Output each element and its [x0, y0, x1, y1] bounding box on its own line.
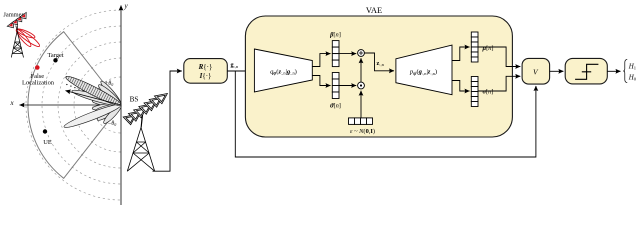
output brace — [623, 60, 627, 83]
svg-text:H0: H0 — [628, 73, 637, 81]
BS tower — [127, 114, 154, 171]
steering arrow — [66, 91, 122, 105]
petal -7 — [92, 102, 121, 111]
svg-text:σ[n]: σ[n] — [483, 89, 494, 96]
svg-text:H1: H1 — [628, 62, 637, 70]
wire g to VAE — [227, 70, 251, 72]
decoder fan-out wires — [452, 47, 470, 61]
vector sigma — [471, 77, 478, 107]
svg-text:ε ~ N(0,I): ε ~ N(0,I) — [350, 128, 375, 135]
wire mu to V — [478, 47, 520, 67]
feedback wire — [235, 71, 536, 157]
svg-text:+θ0: +θ0 — [105, 81, 114, 87]
wire BS to Re/Im block — [153, 71, 182, 171]
svg-text:Localization: Localization — [22, 80, 55, 87]
sector boundary — [28, 32, 121, 179]
target dot — [53, 58, 57, 62]
svg-text:μ[n]: μ[n] — [482, 45, 494, 52]
petal +8 — [92, 98, 122, 108]
jammer beam lobes — [15, 27, 42, 49]
svg-text:ϑ[n]: ϑ[n] — [330, 103, 341, 110]
y-axis — [120, 6, 122, 206]
vector mu — [471, 32, 478, 62]
svg-text:BS: BS — [130, 96, 139, 104]
wire vartheta to multiplier — [339, 85, 356, 87]
svg-text:y: y — [124, 2, 129, 10]
petal -47 — [102, 103, 123, 125]
petal -21 (long sidelobe) — [63, 101, 123, 130]
jammer tower — [11, 25, 23, 57]
jammer antenna array — [7, 12, 29, 30]
svg-text:VAE: VAE — [366, 5, 382, 15]
vector beta — [332, 41, 339, 67]
VAE box — [245, 16, 512, 137]
wire sigma to V — [478, 76, 520, 91]
encoder fan-out wires — [312, 54, 330, 67]
svg-text:g:,n: g:,n — [231, 62, 239, 70]
wire z to decoder — [364, 53, 394, 71]
svg-text:x: x — [9, 99, 14, 107]
BS antenna array — [123, 94, 167, 125]
svg-text:R{·}: R{·} — [198, 63, 213, 71]
encoder q_phi — [254, 49, 312, 92]
petal +50 — [99, 79, 123, 106]
wire V to threshold — [550, 70, 564, 72]
petal +16 (long) — [71, 88, 122, 109]
adder (plus in circle) — [358, 50, 365, 57]
petal -13 — [95, 102, 122, 113]
wire multiplier to adder — [360, 58, 362, 82]
svg-text:UE: UE — [43, 139, 52, 146]
UE dot — [43, 129, 47, 133]
wire eps to multiplier — [360, 91, 362, 118]
vector vartheta — [332, 73, 339, 99]
svg-text:β[n]: β[n] — [329, 32, 341, 39]
svg-text:I{·}: I{·} — [199, 72, 212, 80]
false localization dot — [35, 65, 40, 70]
petal +42 — [97, 83, 123, 108]
block Re/Im — [184, 59, 228, 84]
wire beta to adder — [339, 53, 356, 55]
threshold step glyph — [575, 64, 598, 79]
beam petals of BS pattern — [63, 73, 124, 130]
block V — [522, 58, 550, 84]
decoder p_psi — [396, 45, 452, 95]
noise vector eps — [349, 118, 373, 125]
dotted theta ray — [67, 84, 84, 90]
output wire — [607, 70, 620, 72]
petal -32 — [96, 102, 123, 122]
multiplier (dot in circle) — [358, 82, 365, 89]
block threshold — [565, 58, 607, 84]
main lobe +27 hatched — [64, 73, 123, 109]
x-axis — [20, 104, 122, 106]
svg-text:Target: Target — [47, 52, 63, 59]
dashed range rings — [26, 10, 121, 200]
svg-text:−θ0: −θ0 — [108, 121, 117, 127]
